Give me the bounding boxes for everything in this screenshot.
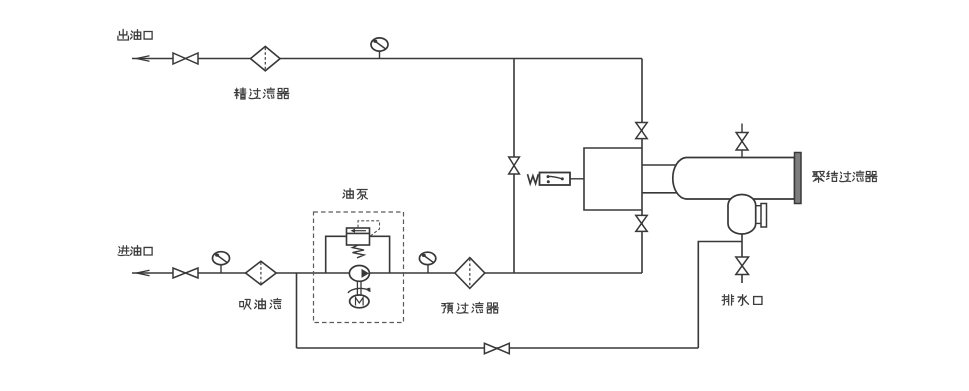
- relief valve RV1: [347, 228, 370, 245]
- wire bowl drain: [741, 234, 743, 283]
- wire branch drain to bottom: [698, 242, 742, 349]
- label W: [528, 174, 539, 183]
- gauge G2 stem: [220, 265, 222, 273]
- rotation arrow arc: [348, 288, 371, 293]
- wire middle vertical drop x514: [513, 59, 515, 274]
- valve V1 outlet: [173, 53, 198, 64]
- valve V3 on x514: [509, 157, 520, 174]
- valve V4b lower on x642: [636, 215, 647, 231]
- pump shaft: [357, 281, 361, 295]
- relief valve pilot dashed line: [358, 221, 380, 236]
- label ju-jie-guo-lv-qi coalescing filter: [813, 171, 877, 183]
- label chu-you-kou outlet: [118, 29, 152, 40]
- gauge G3 stem: [427, 265, 429, 274]
- gauge G3: [419, 252, 435, 264]
- label pai-shui-kou drain: [722, 295, 762, 306]
- filter F2 dashed element: [260, 262, 262, 283]
- gauge G1: [371, 38, 388, 51]
- filter F1 fine diamond: [251, 46, 281, 70]
- valve V2 inlet: [173, 268, 198, 278]
- wire outlet top line: [132, 58, 642, 60]
- wire right vertical x642 bottom: [641, 210, 643, 273]
- wire neck lower: [642, 192, 686, 194]
- vessel flange: [795, 153, 802, 204]
- bowl nozzle lines: [756, 206, 761, 224]
- filter F2 suction diamond: [246, 261, 277, 285]
- wire main inlet line: [132, 272, 642, 274]
- water bowl: [728, 194, 756, 234]
- motor letter M: [356, 298, 364, 306]
- vessel coalescing filter body: [673, 158, 795, 200]
- label jing-guo-lv-qi fine filter: [234, 88, 289, 99]
- manifold bracket: [584, 148, 642, 210]
- filter F3 pre diamond: [455, 258, 485, 289]
- wire bottom return line: [297, 347, 699, 349]
- pressure switch contacts: [547, 175, 564, 183]
- pump dashed enclosure: [314, 212, 404, 323]
- valve V5 air bleed: [736, 133, 748, 151]
- valve V4 upper on x642: [636, 123, 647, 139]
- motor M1: [350, 295, 369, 308]
- pressure switch wire to bracket: [570, 178, 584, 180]
- gauge G2: [213, 252, 230, 265]
- filter F3 dashed element: [469, 259, 471, 288]
- valve V7 bottom return: [484, 343, 509, 353]
- gauge G3 needle: [422, 254, 433, 263]
- pump P1: [349, 266, 369, 282]
- wire relief bypass loop: [326, 236, 390, 273]
- wire left vertical junction x296: [296, 273, 298, 348]
- valve V6 drain: [736, 257, 749, 275]
- wire neck upper: [642, 164, 686, 166]
- label you-beng pump: [343, 189, 368, 200]
- gauge G2 needle: [215, 254, 227, 263]
- relief valve spring: [353, 245, 365, 258]
- bowl flange: [761, 204, 767, 228]
- filter F1 dashed element: [264, 48, 266, 70]
- inlet flow arrow: [137, 270, 150, 276]
- wire right vertical x642 top: [641, 59, 643, 149]
- gauge G1 stem: [379, 51, 381, 59]
- gauge G1 needle: [373, 40, 385, 49]
- label jin-you-kou inlet: [118, 246, 152, 256]
- label yu-guo-lv-qi pre filter: [442, 302, 499, 313]
- outlet flow arrow: [137, 56, 150, 62]
- valve V5 stem on vessel top: [741, 124, 743, 158]
- pressure switch W box: [540, 173, 571, 186]
- label xi-you-lv suction filter: [240, 298, 281, 309]
